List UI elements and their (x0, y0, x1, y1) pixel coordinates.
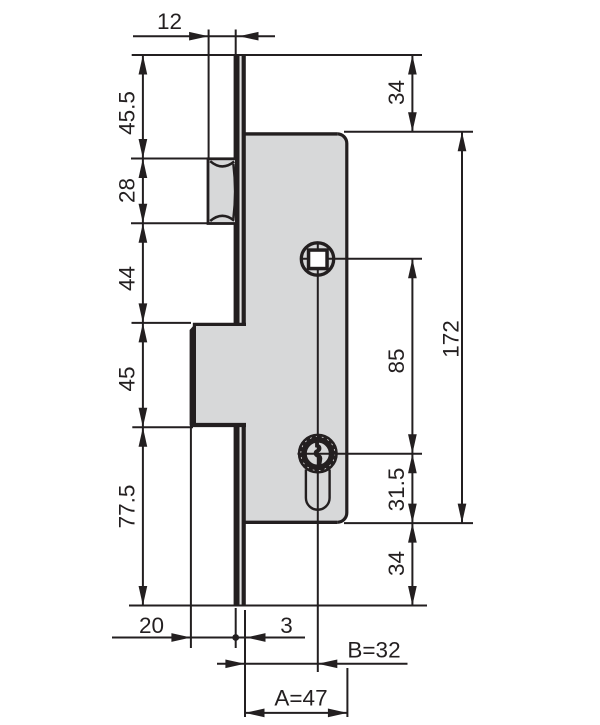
lock body bottom edge (245, 521, 337, 524)
centerline spindle to cylinder (317, 242, 319, 673)
extension line body top (344, 131, 473, 133)
faceplate light slit (240, 54, 242, 604)
lock body right edge (337, 134, 347, 522)
extension line deadbolt bottom (132, 426, 193, 428)
arrow 31.5 up (408, 454, 417, 474)
svg-text:45.5: 45.5 (114, 91, 139, 135)
arrow 172 up (458, 132, 467, 152)
extension line faceplate front bottom (235, 608, 237, 648)
deadbolt top edge (193, 323, 246, 326)
arrow A left (245, 709, 265, 718)
svg-text:172: 172 (439, 320, 464, 358)
arrow 28 down (139, 204, 148, 224)
svg-text:28: 28 (114, 178, 139, 203)
dimension line B=32 (217, 663, 408, 665)
svg-text:A=47: A=47 (274, 686, 327, 711)
deadbolt (192, 323, 246, 423)
faceplate left black bar (234, 54, 240, 604)
arrow 45.5 up (139, 55, 148, 75)
extension line latch face (208, 30, 210, 159)
extension line spindle center (300, 258, 422, 260)
arrow B right (318, 659, 338, 668)
extension line faceplate bottom (129, 605, 427, 607)
arrow 3 (246, 633, 266, 642)
arrow 45.5 down (139, 139, 148, 159)
arrow A right (328, 709, 348, 718)
arrow 44 up (139, 223, 148, 243)
dimension line 172 (461, 132, 463, 523)
extension line faceplate top (132, 54, 422, 56)
arrow 34bot up (408, 523, 417, 543)
arrow 44 down (139, 303, 148, 323)
svg-text:44: 44 (114, 266, 139, 291)
dimension line 34 top (411, 55, 413, 132)
arrow 34top down (408, 112, 417, 132)
extension line latch top (131, 158, 208, 160)
dimension line A=47 (245, 712, 347, 714)
terminator dot (232, 634, 239, 641)
svg-text:34: 34 (384, 80, 409, 105)
arrow 45 down (139, 408, 148, 428)
arrow B left (225, 659, 245, 668)
svg-text:20: 20 (139, 613, 164, 638)
dimension line 85 31.5 34 (411, 259, 413, 606)
arrow 45 up (139, 323, 148, 343)
arrow 34bot down (408, 586, 417, 606)
arrow 12 right (239, 32, 259, 41)
extension line deadbolt face (190, 427, 192, 648)
arrow 172 down (458, 504, 467, 524)
extension line body front (244, 610, 246, 717)
spindle square (309, 250, 328, 268)
extension line latch bottom (131, 222, 208, 224)
keyway (316, 442, 321, 466)
extension line faceplate front top (235, 30, 237, 56)
svg-text:34: 34 (384, 551, 409, 576)
roller latch top arc (210, 161, 234, 166)
extension line body bottom (344, 522, 473, 524)
dimension line left column (142, 55, 144, 606)
roller latch right bulge (233, 164, 235, 219)
arrow 34top up (408, 55, 417, 75)
arrow 85 down (408, 434, 417, 454)
extension line deadbolt top (132, 322, 192, 324)
svg-text:77.5: 77.5 (114, 485, 139, 529)
lock body (245, 132, 347, 522)
roller latch bolt (208, 159, 236, 224)
arrow 28 up (139, 159, 148, 179)
dimension line 20 and 3 (112, 637, 305, 639)
arrow 85 up (408, 259, 417, 279)
svg-text:B=32: B=32 (347, 637, 400, 662)
svg-text:45: 45 (114, 366, 139, 391)
arrow 20 (171, 633, 191, 642)
extension line body right (346, 668, 348, 717)
svg-text:85: 85 (384, 348, 409, 373)
cylinder dashed circle (301, 437, 335, 471)
lock body top edge (245, 132, 337, 135)
svg-text:31.5: 31.5 (384, 468, 409, 512)
deadbolt bottom edge (190, 423, 246, 427)
cylinder U profile (306, 470, 330, 510)
roller latch bottom arc (210, 216, 234, 221)
faceplate right black bar (242, 54, 246, 604)
spindle follower circle (301, 243, 333, 275)
svg-text:12: 12 (157, 9, 182, 34)
dimension line 12 (133, 35, 275, 37)
arrow 12 left (189, 32, 209, 41)
cylinder ring (302, 438, 333, 469)
arrow 77.5 down (139, 586, 148, 606)
extension line cylinder center (298, 453, 423, 455)
arrow 31.5 down (408, 504, 417, 524)
svg-text:3: 3 (280, 613, 293, 638)
arrow 77.5 up (139, 427, 148, 447)
deadbolt front face (190, 323, 196, 426)
